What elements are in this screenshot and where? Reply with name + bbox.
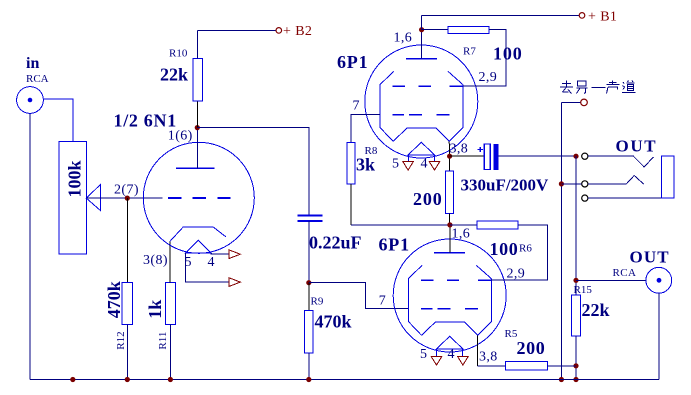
wire output bus down <box>575 156 577 295</box>
terminal to other channel <box>561 99 587 106</box>
svg-text:4: 4 <box>208 255 215 270</box>
svg-text:5: 5 <box>185 255 192 270</box>
wire other-channel bus down <box>560 102 562 379</box>
node output/RCA dot <box>573 278 578 283</box>
wire input jack to potentiometer <box>43 99 72 141</box>
capacitor C2 330uF/200V <box>450 144 499 170</box>
phone jack ring contact circle <box>582 181 588 187</box>
svg-text:RCA: RCA <box>26 73 49 85</box>
resistor R10 body <box>193 30 276 127</box>
wire bus to ring <box>561 183 581 185</box>
node cap/R9 junction dot <box>306 280 311 285</box>
svg-text:1k: 1k <box>145 300 165 319</box>
svg-text:200: 200 <box>413 189 443 209</box>
resistor R5 body <box>478 362 576 370</box>
wire lower 6P1 plate lead <box>449 225 451 253</box>
svg-text:470k: 470k <box>315 312 352 332</box>
svg-text:22k: 22k <box>582 300 610 320</box>
wire upper cathode 3,8 lead <box>448 141 450 171</box>
resistor R12 body <box>122 283 132 325</box>
node R15/ground dot <box>573 377 578 382</box>
svg-text:6P1: 6P1 <box>379 235 410 255</box>
svg-text:100: 100 <box>493 44 523 64</box>
node bus/ring dot <box>559 181 564 186</box>
svg-text:OUT: OUT <box>616 137 658 156</box>
wire 6N1 cathode to R11 <box>169 242 171 283</box>
wire lower cathode 3,8 lead <box>477 335 479 366</box>
svg-text:5: 5 <box>392 157 399 172</box>
6N1 grid dashes <box>168 197 231 199</box>
resistor R15 body <box>571 295 580 380</box>
svg-text:OUT: OUT <box>630 248 670 267</box>
node ground R9 dot <box>306 377 311 382</box>
svg-text:RCA: RCA <box>613 267 637 279</box>
svg-text:7: 7 <box>379 294 386 309</box>
wire upper 6P1 plate lead <box>421 30 423 59</box>
wire wiper to 6N1 grid <box>86 197 162 199</box>
svg-text:3,8: 3,8 <box>450 142 469 157</box>
svg-text:1/2 6N1: 1/2 6N1 <box>114 111 177 131</box>
tube U1 6N1 envelope <box>143 142 254 253</box>
svg-text:4: 4 <box>421 157 428 172</box>
resistor R11 body <box>165 283 175 325</box>
wire cap to output node <box>499 155 576 157</box>
node output junction dot <box>573 154 578 159</box>
wire filament pin 5 <box>186 253 229 282</box>
svg-text:22k: 22k <box>160 65 188 85</box>
input label in <box>26 55 49 85</box>
svg-text:3(8): 3(8) <box>143 253 168 268</box>
svg-text:100: 100 <box>490 239 519 259</box>
node 2(7) junction dot <box>125 196 130 201</box>
tube V3 6P1 lower <box>393 239 506 356</box>
filament arrow upper left <box>403 162 414 171</box>
filament arrow top <box>229 250 241 259</box>
svg-text:200: 200 <box>517 338 546 358</box>
svg-text:+ B1: + B1 <box>588 9 617 24</box>
6N1 filament <box>186 240 211 253</box>
svg-text:0.22uF: 0.22uF <box>309 233 362 253</box>
resistor R7 body <box>422 26 507 86</box>
6N1 cathode <box>170 227 226 241</box>
filament arrow lower right <box>458 357 469 366</box>
svg-text:2,9: 2,9 <box>507 267 526 282</box>
svg-text:R10: R10 <box>169 48 188 60</box>
label OUT RCA <box>613 248 670 280</box>
node 1,6 lower junction dot <box>447 222 452 227</box>
wire plate to B1 <box>422 15 580 29</box>
svg-text:2(7): 2(7) <box>114 183 139 198</box>
capacitor C1 0.22uF <box>298 216 323 221</box>
svg-text:in: in <box>26 55 39 72</box>
wire RCA out ground <box>658 293 660 379</box>
svg-text:R9: R9 <box>311 296 324 308</box>
filament arrow bottom <box>229 278 241 287</box>
svg-text:R7: R7 <box>463 46 476 58</box>
wire cap to node <box>308 221 310 283</box>
svg-text:470k: 470k <box>104 281 124 318</box>
jack sleeve line <box>588 197 674 199</box>
potentiometer 100k body <box>59 142 87 254</box>
svg-text:100k: 100k <box>64 160 84 197</box>
filament arrow upper right <box>429 162 440 171</box>
svg-text:2,9: 2,9 <box>479 70 498 85</box>
jack plug body <box>661 156 673 198</box>
svg-text:3k: 3k <box>356 155 375 175</box>
resistor R6 body <box>450 221 548 280</box>
tube V2 6P1 upper <box>365 45 478 162</box>
terminal +B2 <box>276 24 312 39</box>
wire R12 to ground <box>126 325 128 380</box>
filament arrow lower left <box>431 357 442 366</box>
svg-text:R11: R11 <box>157 332 169 350</box>
potentiometer wiper arrow <box>86 185 100 211</box>
wire filament pin 4 <box>211 253 229 254</box>
svg-text:330uF/200V: 330uF/200V <box>461 176 550 195</box>
svg-text:R15: R15 <box>574 284 593 296</box>
phone jack sleeve contact circle <box>582 195 588 201</box>
terminal +B1 <box>579 9 617 24</box>
jack ring contact spring <box>588 176 644 185</box>
svg-text:6P1: 6P1 <box>337 52 368 72</box>
jack tip contact spring <box>588 156 654 167</box>
svg-text:3,8: 3,8 <box>479 350 498 365</box>
wire node to lower 6P1 grid <box>309 283 409 309</box>
svg-text:7: 7 <box>353 99 360 114</box>
node 1(6) junction dot <box>195 125 200 130</box>
node ground pot dot <box>70 377 75 382</box>
wire R8 to upper grid pin 7 <box>351 115 380 143</box>
wire output to RCA out <box>576 279 646 281</box>
resistor R8 body <box>347 143 450 225</box>
svg-text:R6: R6 <box>519 243 532 255</box>
node ground R12 dot <box>125 377 130 382</box>
node plate junction dot upper <box>419 27 424 32</box>
ground bus <box>30 379 659 381</box>
wire input jack ground down <box>29 113 31 379</box>
wire grid node down to R12 <box>126 198 128 282</box>
svg-text:4: 4 <box>448 347 455 362</box>
node 3,8 junction dot <box>447 154 452 159</box>
svg-text:1,6: 1,6 <box>394 31 413 46</box>
svg-text:5: 5 <box>420 347 427 362</box>
label to other channel <box>560 81 636 94</box>
6N1 plate <box>176 128 215 169</box>
svg-text:+ B2: + B2 <box>283 24 312 39</box>
svg-text:1,6: 1,6 <box>452 227 471 242</box>
node R15/R5 dot <box>573 363 578 368</box>
phone jack tip contact circle <box>582 153 588 159</box>
node bus/ground dot <box>559 377 564 382</box>
resistor 200 upper body <box>446 171 454 225</box>
RCA input jack J1 <box>17 87 44 114</box>
svg-text:R12: R12 <box>115 331 127 349</box>
node ground R11 dot <box>168 377 173 382</box>
wire R11 to ground <box>169 325 171 380</box>
RCA output jack <box>646 267 672 293</box>
wire 6N1 plate to coupling cap <box>197 128 308 215</box>
resistor R9 body <box>305 283 314 380</box>
svg-text:1(6): 1(6) <box>168 129 193 144</box>
